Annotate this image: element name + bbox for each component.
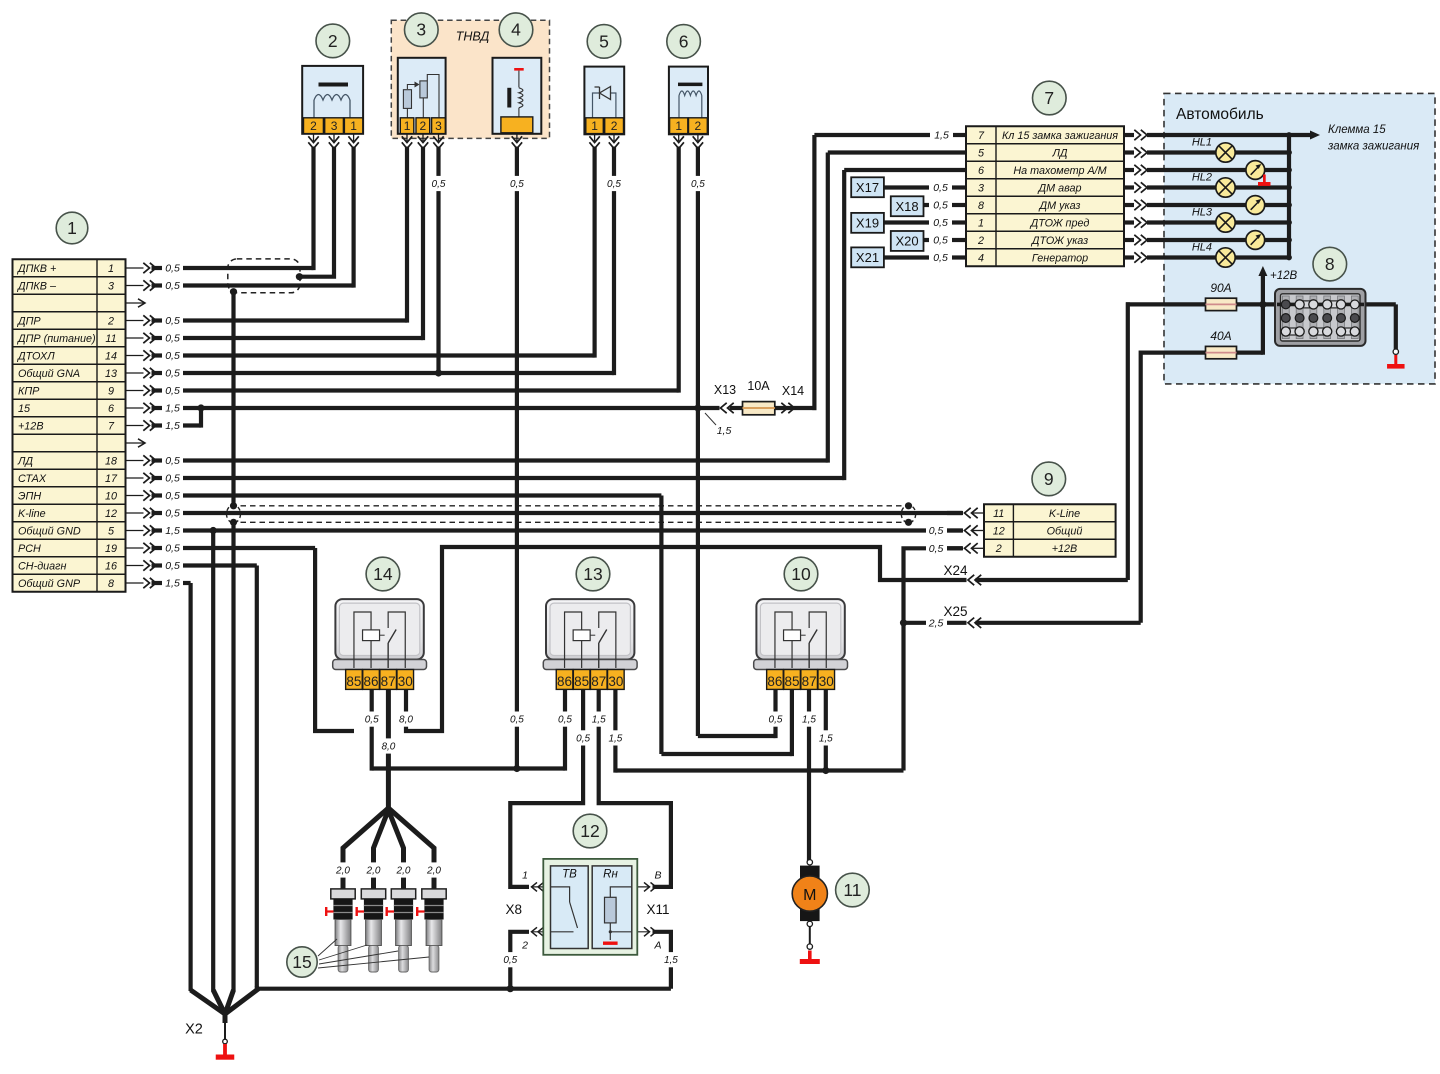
svg-text:ТНВД: ТНВД — [456, 30, 490, 44]
sensor 5 (fuel temp sensor / diode) — [584, 67, 624, 135]
wire size callout 1,5 at X13 — [705, 413, 731, 437]
wire СН-диагн leg to X2 — [255, 986, 259, 989]
svg-text:0,5: 0,5 — [576, 733, 590, 744]
wire 90A feed — [1126, 302, 1206, 306]
svg-text:2: 2 — [107, 315, 114, 327]
wire size label — [574, 730, 592, 745]
wire relay 14 pin 30 to X24 run — [406, 547, 967, 731]
junction lamp bus — [1286, 255, 1292, 261]
connector arrow row 18 — [127, 455, 180, 467]
wire size label 2,0 — [395, 862, 413, 877]
arrow below sensor 4 pin — [512, 134, 522, 149]
lamp HL3 — [1192, 207, 1235, 233]
junction — [1259, 301, 1266, 308]
svg-text:7: 7 — [1044, 88, 1054, 108]
svg-text:СТАХ: СТАХ — [18, 473, 47, 485]
wire size label 0,5 — [689, 176, 707, 191]
svg-text:Кл 15 замка зажигания: Кл 15 замка зажигания — [1002, 130, 1118, 142]
callout 1 — [56, 212, 88, 244]
svg-text:ТВ: ТВ — [562, 869, 577, 881]
wire relay 13 pin 87 to X11 pin B — [599, 689, 671, 887]
junction — [230, 502, 237, 509]
wire size label — [800, 712, 818, 727]
wire block9 +12В stub — [947, 546, 962, 550]
svg-text:30: 30 — [608, 674, 623, 689]
svg-text:86: 86 — [364, 674, 379, 689]
svg-text:8,0: 8,0 — [381, 742, 395, 753]
svg-text:0,5: 0,5 — [165, 263, 180, 275]
wire shield drain lower — [231, 522, 235, 991]
junction — [694, 404, 701, 411]
svg-text:замка зажигания: замка зажигания — [1327, 141, 1419, 153]
wire Общий GNP row — [183, 581, 191, 585]
svg-text:0,5: 0,5 — [165, 315, 180, 327]
arrow below sensor 5 pin 1 — [589, 134, 599, 149]
arrow block7 row 2 into car — [1124, 165, 1147, 175]
svg-text:1,5: 1,5 — [165, 403, 180, 415]
svg-text:ЛД: ЛД — [1051, 147, 1067, 159]
arrow below sensor 2 pin 3 — [329, 134, 339, 149]
wire ЛД row to block 7 — [828, 150, 966, 154]
junction — [197, 404, 204, 411]
svg-text:0,5: 0,5 — [929, 543, 944, 555]
X13 connector arrows — [721, 403, 734, 413]
arrow below sensor 2 pin 2 — [308, 134, 318, 149]
wire Общий GND drop to X2 — [211, 531, 215, 992]
wire Общий GNP drop to X2 — [189, 583, 193, 991]
wire РСН drop — [313, 548, 317, 731]
wire car box row 5 — [1147, 220, 1289, 224]
connector arrow empty row — [127, 299, 146, 307]
junction — [230, 288, 237, 295]
wire size label — [363, 712, 381, 727]
wire X24 riser to 90A fuse — [1126, 302, 1130, 580]
svg-text:K-line: K-line — [18, 508, 46, 520]
wire Общий GNA row — [183, 371, 614, 375]
junction lamp bus — [1286, 150, 1292, 156]
junction — [822, 767, 829, 774]
svg-text:9: 9 — [1044, 469, 1054, 489]
ECU connector block 1 table — [13, 259, 126, 592]
svg-text:X20: X20 — [896, 234, 919, 249]
svg-text:1: 1 — [522, 870, 528, 882]
svg-text:Rн: Rн — [603, 869, 618, 881]
motor M (fuel pump) — [792, 860, 827, 964]
svg-text:2: 2 — [977, 235, 984, 247]
svg-text:14: 14 — [373, 564, 393, 584]
svg-text:Общий GND: Общий GND — [18, 525, 81, 537]
wire ДТОХЛ row — [183, 353, 595, 357]
connector arrow row 2 — [127, 315, 180, 327]
svg-text:6: 6 — [679, 31, 689, 51]
wire СТАХ row — [183, 476, 844, 480]
arrow into block 9 — [947, 543, 984, 553]
wire X2 stub — [223, 1012, 228, 1023]
wire sensor6 pin2 to relay 10 pin 86 — [698, 734, 776, 738]
gauge 3 — [1246, 231, 1265, 250]
wire size label — [767, 712, 785, 727]
wire relay 13 pin 86 drop — [563, 689, 567, 770]
svg-text:HL1: HL1 — [1192, 137, 1212, 149]
wire X14 stub — [794, 406, 817, 410]
glow plug 4 — [416, 889, 446, 972]
svg-text:0,5: 0,5 — [503, 955, 517, 966]
callout 7 — [1033, 81, 1067, 115]
wire car box row 2 — [1147, 168, 1289, 172]
glow plug 1 — [325, 889, 355, 972]
svg-text:Общий: Общий — [1047, 525, 1083, 537]
svg-text:ЛД: ЛД — [17, 455, 33, 467]
callout 9 — [1032, 462, 1066, 496]
sensor 3 (ТНВД position sensor) — [398, 58, 446, 134]
callout 15 leader lines — [318, 939, 429, 968]
svg-text:2,0: 2,0 — [426, 866, 441, 877]
svg-text:3: 3 — [108, 280, 114, 292]
gauge 2 — [1246, 196, 1265, 215]
svg-text:5: 5 — [108, 525, 115, 537]
callout 6 — [667, 25, 701, 59]
wire size label — [379, 738, 397, 753]
wire relay 14 pin 87 to plug star — [386, 689, 391, 812]
svg-text:2,5: 2,5 — [928, 617, 944, 629]
fuse 90A — [1206, 281, 1237, 311]
junction — [230, 519, 237, 526]
junction lamp bus — [1286, 167, 1292, 173]
svg-text:ЭПН: ЭПН — [18, 490, 41, 502]
wire car box row 3 — [1147, 185, 1289, 189]
lamp HL2 — [1192, 172, 1235, 198]
svg-text:12: 12 — [993, 525, 1005, 537]
wire КПР row — [183, 388, 679, 392]
svg-text:Генератор: Генератор — [1032, 252, 1088, 264]
wire ДПКВ- riser to sensor 2 pin 1 — [352, 147, 356, 288]
svg-text:2: 2 — [995, 543, 1002, 555]
svg-text:0,5: 0,5 — [165, 543, 180, 555]
wire Общий GND row — [183, 528, 926, 532]
svg-text:85: 85 — [574, 674, 589, 689]
svg-text:1: 1 — [978, 217, 984, 229]
wire РСН row — [183, 546, 315, 550]
wire size label 1,5 — [662, 952, 680, 967]
svg-text:ДПР: ДПР — [17, 315, 41, 327]
shield of crank sensor twisted pair — [228, 259, 300, 293]
svg-text:10: 10 — [791, 564, 811, 584]
svg-text:86: 86 — [557, 674, 572, 689]
svg-text:4: 4 — [511, 20, 521, 40]
svg-text:0,5: 0,5 — [929, 525, 944, 537]
connector label X17 — [851, 177, 884, 197]
wire size label — [508, 712, 526, 727]
ground at box 8 — [1393, 349, 1398, 354]
svg-text:15: 15 — [18, 403, 31, 415]
wire car box row 1 — [1147, 150, 1289, 154]
callout 3 — [405, 13, 439, 47]
svg-text:13: 13 — [583, 564, 602, 584]
glow plug 2 — [356, 889, 386, 972]
connector label X21 — [851, 247, 884, 267]
svg-text:A: A — [653, 940, 661, 952]
wire X8 pin 2 to ground bus — [510, 932, 529, 989]
callout 4 — [499, 13, 533, 47]
wire ДПКВ+ riser to sensor 2 pin 2 — [311, 147, 315, 271]
svg-text:0,5: 0,5 — [558, 715, 572, 726]
arrow to Клемма 15 — [1310, 131, 1320, 140]
svg-text:1,5: 1,5 — [664, 955, 678, 966]
svg-text:X24: X24 — [943, 563, 968, 578]
svg-text:87: 87 — [802, 674, 817, 689]
wire plug 1 feed — [343, 808, 388, 889]
junction — [905, 502, 912, 509]
wire 40A riser to +12В node — [1261, 304, 1265, 354]
svg-text:15: 15 — [292, 952, 311, 972]
svg-text:0,5: 0,5 — [165, 368, 180, 380]
svg-text:86: 86 — [767, 674, 782, 689]
wire X24 arrow to fuse riser — [976, 578, 1128, 582]
svg-text:ДТОЖ пред: ДТОЖ пред — [1030, 217, 1090, 229]
wire car box row 6 — [1147, 238, 1289, 242]
wire fuse to X14 corner — [775, 406, 794, 410]
svg-text:8: 8 — [978, 200, 984, 212]
arrow into block 9 — [947, 525, 984, 535]
svg-text:Общий GNA: Общий GNA — [18, 368, 80, 380]
svg-text:1,5: 1,5 — [165, 420, 180, 432]
arrow block7 row 4 into car — [1124, 200, 1147, 210]
wire X25 riser to 40A fuse — [1139, 351, 1143, 623]
svg-text:M: M — [803, 887, 816, 904]
wire size label — [590, 712, 608, 727]
svg-text:X17: X17 — [856, 180, 879, 195]
svg-text:0,5: 0,5 — [165, 455, 180, 467]
arrow below sensor 2 pin 1 — [348, 134, 358, 149]
svg-text:0,5: 0,5 — [165, 350, 180, 362]
svg-text:0,5: 0,5 — [165, 473, 180, 485]
svg-text:30: 30 — [398, 674, 413, 689]
arrow below sensor 6 pin 2 — [693, 134, 703, 149]
svg-text:1: 1 — [591, 119, 598, 133]
wire block9 +12В drop — [904, 548, 927, 770]
wire relay 10 pin 86 drop — [773, 689, 777, 738]
wire size label — [817, 730, 835, 745]
svg-text:X2: X2 — [185, 1022, 203, 1038]
svg-text:1,5: 1,5 — [592, 715, 606, 726]
svg-text:11: 11 — [993, 508, 1004, 520]
svg-text:8: 8 — [108, 578, 114, 590]
wire X19 stub — [952, 220, 966, 224]
svg-text:1: 1 — [675, 119, 682, 133]
arrow below sensor 3 pin 2 — [418, 134, 428, 149]
svg-text:КПР: КПР — [18, 385, 40, 397]
connector arrow row 8 — [127, 578, 180, 590]
callout 12 — [573, 814, 607, 848]
wire plug 2 feed — [374, 810, 389, 889]
wire size label 0,5 — [430, 176, 448, 191]
svg-text:7: 7 — [108, 420, 115, 432]
wire plug 4 feed — [388, 808, 434, 889]
svg-text:ДМ авар: ДМ авар — [1037, 182, 1081, 194]
svg-text:ДПР (питание): ДПР (питание) — [17, 333, 96, 345]
wire plug 3 feed — [388, 810, 403, 889]
svg-text:2,0: 2,0 — [366, 866, 381, 877]
svg-text:РСН: РСН — [18, 543, 41, 555]
arrow below sensor 6 pin 1 — [674, 134, 684, 149]
X11 connector arrow — [630, 882, 656, 891]
lamp HL1 — [1192, 137, 1235, 163]
svg-text:40A: 40A — [1210, 329, 1231, 343]
svg-text:3: 3 — [435, 119, 442, 133]
junction — [210, 527, 217, 534]
svg-text:1: 1 — [67, 218, 77, 238]
wire X18 stub — [952, 203, 966, 207]
svg-text:0,5: 0,5 — [365, 715, 379, 726]
connector arrow row 6 — [127, 403, 180, 415]
wire тахометр row to block 7 — [844, 168, 966, 172]
svg-text:На тахометр А/М: На тахометр А/М — [1013, 165, 1106, 177]
arrow below sensor 5 pin 2 — [609, 134, 619, 149]
wire СН-диагн drop to X2 — [255, 566, 259, 987]
svg-text:90A: 90A — [1210, 281, 1231, 295]
svg-text:3: 3 — [331, 119, 338, 133]
svg-text:B: B — [654, 870, 661, 882]
wire X19 to block 7 — [884, 220, 929, 224]
junction — [507, 985, 514, 992]
svg-text:1,5: 1,5 — [608, 733, 622, 744]
connector arrow row 13 — [127, 368, 180, 380]
connector arrow row 14 — [127, 350, 180, 362]
svg-text:2: 2 — [611, 119, 618, 133]
wire size label 2,0 — [365, 862, 383, 877]
wire X20 to block 7 — [923, 238, 929, 242]
svg-text:16: 16 — [105, 560, 117, 572]
svg-text:85: 85 — [785, 674, 800, 689]
wire ДПР riser to sensor 3 pin 1 — [405, 147, 409, 323]
wire relay contacts supply bus — [615, 768, 903, 772]
callout 10 — [784, 557, 818, 591]
svg-text:6: 6 — [108, 403, 114, 415]
connector arrow row 3 — [127, 280, 180, 292]
+12В arrow — [1258, 266, 1267, 304]
svg-text:0,5: 0,5 — [510, 715, 524, 726]
svg-text:18: 18 — [105, 455, 117, 467]
connector arrow row 10 — [127, 490, 180, 502]
svg-text:6: 6 — [978, 165, 984, 177]
svg-text:X19: X19 — [856, 216, 879, 231]
wire X25 left segment — [906, 621, 926, 625]
wire ДПР(питание) riser to sensor 3 pin 2 — [421, 147, 425, 341]
svg-text:0,5: 0,5 — [769, 715, 783, 726]
wire relay 10 pin 85 drop — [790, 689, 794, 756]
lamp HL4 — [1192, 242, 1235, 268]
svg-text:X18: X18 — [896, 199, 919, 214]
wire sensor 6 pin 2 drop — [696, 147, 700, 737]
wire Кл 15 stub — [953, 133, 966, 137]
arrow block7 row 6 into car — [1124, 235, 1147, 245]
svg-text:1,5: 1,5 — [802, 715, 816, 726]
wire bottom ground bus — [257, 987, 671, 991]
wire Общий GND row2 — [947, 528, 962, 532]
instrument connector block 7 table — [966, 126, 1124, 266]
svg-text:0,5: 0,5 — [165, 385, 180, 397]
wire ground bus into X2 star — [225, 989, 259, 1014]
junction box 8 — [1275, 289, 1366, 346]
wire lamp bus — [1287, 135, 1291, 258]
connector label X20 — [891, 231, 924, 251]
svg-text:12: 12 — [580, 821, 599, 841]
wire ЭПН row — [183, 493, 661, 497]
arrow into block 9 — [947, 508, 984, 518]
connector label X18 — [891, 196, 924, 216]
wire box8 ground drop — [1394, 304, 1398, 349]
svg-text:87: 87 — [381, 674, 396, 689]
shield of K-line wire — [227, 505, 916, 523]
sensor 4 (ТНВД shutoff valve) — [493, 58, 542, 134]
junction — [296, 273, 303, 280]
wire through box 8 — [1277, 302, 1364, 306]
wire X17 to block 7 — [884, 185, 929, 189]
svg-text:СН-диагн: СН-диагн — [18, 560, 66, 572]
X14 connector arrows — [781, 403, 794, 413]
wire РСН to relay 14 pin 85 — [313, 729, 354, 733]
wire box 8 to ground drop — [1364, 302, 1396, 306]
wire КПР riser to sensor 6 pin 1 — [677, 147, 681, 393]
svg-text:ДПКВ +: ДПКВ + — [17, 263, 56, 275]
car body dashed box (Автомобиль) — [1164, 93, 1435, 384]
svg-text:5: 5 — [599, 31, 609, 51]
wire size label 2,0 — [425, 862, 443, 877]
arrow block7 row 1 into car — [1124, 147, 1147, 157]
svg-text:0,5: 0,5 — [510, 179, 524, 190]
svg-text:14: 14 — [105, 350, 117, 362]
junction — [900, 619, 907, 626]
callout 13 — [576, 557, 610, 591]
arrow block7 row 7 into car — [1124, 252, 1147, 262]
connector arrow row 7 — [127, 420, 180, 432]
connector arrow row 19 — [127, 543, 180, 555]
fuse 40A — [1206, 329, 1237, 359]
wire car box row 4 — [1147, 203, 1289, 207]
svg-text:1: 1 — [350, 119, 357, 133]
wire size label 0,5 — [605, 176, 623, 191]
svg-text:0,5: 0,5 — [933, 200, 948, 212]
svg-text:ДТОХЛ: ДТОХЛ — [17, 350, 55, 362]
svg-text:17: 17 — [105, 473, 118, 485]
arrow block7 row 5 into car — [1124, 217, 1147, 227]
svg-text:0,5: 0,5 — [165, 280, 180, 292]
wire ЛД row — [183, 458, 828, 462]
svg-text:2: 2 — [420, 119, 427, 133]
wire relay 10 pin 87 to motor — [807, 689, 811, 861]
wire relay 10 pin 30 drop — [824, 689, 828, 772]
svg-text:11: 11 — [843, 880, 861, 900]
svg-text:1,5: 1,5 — [165, 525, 180, 537]
svg-text:+12В: +12В — [1052, 543, 1078, 555]
X8 connector arrow — [531, 927, 551, 936]
wire size label — [397, 712, 415, 727]
wire K-line row — [183, 511, 962, 515]
wire X25 arrow to fuse riser — [976, 621, 1141, 625]
wire 40A feed — [1139, 351, 1206, 355]
svg-text:8,0: 8,0 — [399, 715, 413, 726]
wire ДПР(питание) row — [183, 336, 423, 340]
arrow below sensor 3 pin 1 — [402, 134, 412, 149]
svg-text:0,5: 0,5 — [933, 235, 948, 247]
X11 connector arrow — [630, 927, 656, 936]
svg-text:HL2: HL2 — [1192, 172, 1212, 184]
svg-text:Общий GNP: Общий GNP — [18, 578, 81, 590]
junction lamp bus — [1286, 237, 1292, 243]
gauge ground — [1258, 175, 1271, 186]
svg-text:ДМ указ: ДМ указ — [1039, 200, 1081, 212]
callout 15 — [287, 947, 317, 977]
